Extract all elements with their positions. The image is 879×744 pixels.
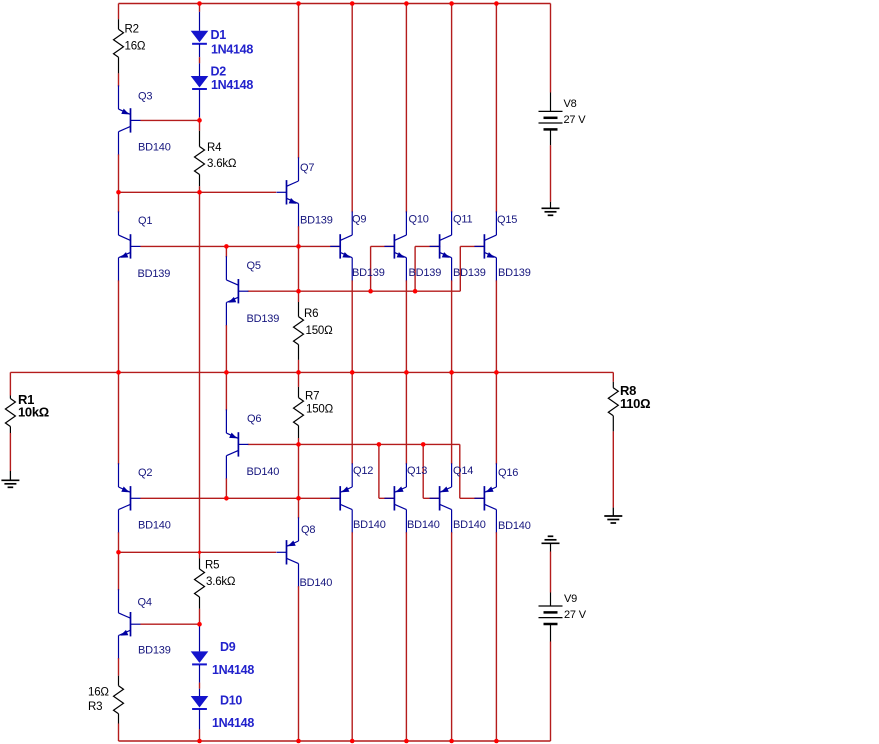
svg-text:Q13: Q13 — [407, 465, 427, 477]
svg-text:110Ω: 110Ω — [620, 396, 650, 411]
svg-text:BD139: BD139 — [409, 267, 442, 279]
svg-text:R7: R7 — [305, 390, 319, 402]
svg-text:D1: D1 — [211, 28, 227, 42]
svg-text:1N4148: 1N4148 — [211, 43, 253, 57]
svg-text:BD140: BD140 — [498, 520, 531, 532]
svg-text:3.6kΩ: 3.6kΩ — [206, 576, 236, 588]
svg-text:10kΩ: 10kΩ — [18, 405, 49, 420]
svg-text:R5: R5 — [205, 559, 219, 571]
svg-text:BD139: BD139 — [138, 268, 171, 280]
svg-text:Q2: Q2 — [138, 467, 152, 479]
svg-text:R6: R6 — [304, 308, 318, 320]
svg-text:BD140: BD140 — [453, 519, 486, 531]
svg-text:16Ω: 16Ω — [88, 686, 109, 698]
svg-text:D9: D9 — [220, 640, 236, 654]
svg-text:16Ω: 16Ω — [125, 40, 146, 52]
svg-text:R4: R4 — [207, 142, 222, 154]
svg-text:BD140: BD140 — [407, 519, 440, 531]
svg-text:BD139: BD139 — [300, 215, 333, 227]
svg-text:Q1: Q1 — [138, 215, 152, 227]
svg-text:150Ω: 150Ω — [306, 325, 334, 337]
svg-text:Q11: Q11 — [453, 214, 472, 226]
svg-text:BD139: BD139 — [453, 267, 486, 279]
svg-text:D10: D10 — [220, 694, 242, 708]
svg-text:BD139: BD139 — [498, 267, 531, 279]
svg-text:BD140: BD140 — [247, 466, 280, 478]
svg-text:Q8: Q8 — [301, 524, 315, 536]
svg-text:R2: R2 — [125, 23, 139, 35]
svg-text:V8: V8 — [564, 98, 577, 110]
svg-text:BD139: BD139 — [352, 267, 385, 279]
svg-text:Q6: Q6 — [247, 413, 261, 425]
svg-text:27 V: 27 V — [564, 114, 587, 126]
svg-text:BD140: BD140 — [138, 142, 171, 154]
svg-text:Q5: Q5 — [247, 260, 261, 272]
svg-text:BD140: BD140 — [138, 520, 171, 532]
svg-text:1N4148: 1N4148 — [212, 663, 254, 677]
svg-text:Q3: Q3 — [138, 91, 152, 103]
svg-text:Q16: Q16 — [498, 467, 518, 479]
svg-text:Q9: Q9 — [352, 214, 366, 226]
svg-text:Q7: Q7 — [300, 162, 314, 174]
svg-text:1N4148: 1N4148 — [211, 78, 253, 92]
svg-text:BD139: BD139 — [247, 313, 280, 325]
svg-text:D2: D2 — [211, 65, 227, 79]
svg-text:150Ω: 150Ω — [306, 403, 334, 415]
svg-text:Q10: Q10 — [409, 214, 429, 226]
svg-text:V9: V9 — [564, 593, 577, 605]
svg-text:BD140: BD140 — [353, 519, 386, 531]
svg-text:1N4148: 1N4148 — [212, 716, 254, 730]
svg-text:Q14: Q14 — [453, 465, 473, 477]
svg-text:BD140: BD140 — [300, 577, 333, 589]
svg-text:27 V: 27 V — [564, 609, 587, 621]
svg-text:3.6kΩ: 3.6kΩ — [207, 158, 237, 170]
svg-text:Q4: Q4 — [138, 597, 152, 609]
svg-text:Q15: Q15 — [497, 214, 517, 226]
svg-text:R3: R3 — [88, 701, 102, 713]
svg-text:Q12: Q12 — [353, 465, 373, 477]
svg-text:BD139: BD139 — [138, 645, 171, 657]
